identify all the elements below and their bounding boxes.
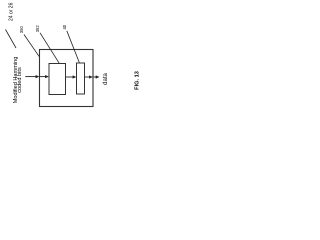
svg-text:24 or 26: 24 or 26	[8, 2, 14, 21]
svg-text:coded bits: coded bits	[17, 67, 23, 93]
svg-text:data: data	[103, 73, 109, 85]
svg-text:FIG. 13: FIG. 13	[135, 71, 141, 90]
svg-text:350: 350	[19, 26, 24, 34]
svg-text:352: 352	[35, 25, 40, 33]
svg-text:40: 40	[62, 24, 67, 29]
